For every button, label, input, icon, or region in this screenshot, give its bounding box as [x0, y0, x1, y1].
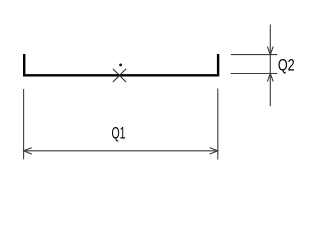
svg-text:Q2: Q2: [278, 57, 295, 75]
dimension Q1 right extension line: [217, 89, 219, 160]
dimension Q1 left arrowhead: [24, 148, 32, 155]
dimension Q1 left extension line: [23, 89, 25, 159]
dimension Q1 line: [24, 150, 218, 152]
dimension Q2 lower arrowhead (points up): [267, 74, 273, 82]
center dot: [119, 64, 122, 67]
dimension Q2 lower extension line: [231, 73, 277, 75]
dimension Q2 line: [269, 25, 271, 107]
dimension Q2 upper extension line: [231, 54, 277, 56]
dimension Q1 right arrowhead: [210, 148, 218, 155]
dimension Q2 upper arrowhead (points down): [267, 47, 273, 55]
channel profile (left flange, web, right flange): [24, 54, 218, 75]
center mark X: [113, 69, 126, 82]
svg-text:Q1: Q1: [112, 124, 126, 142]
